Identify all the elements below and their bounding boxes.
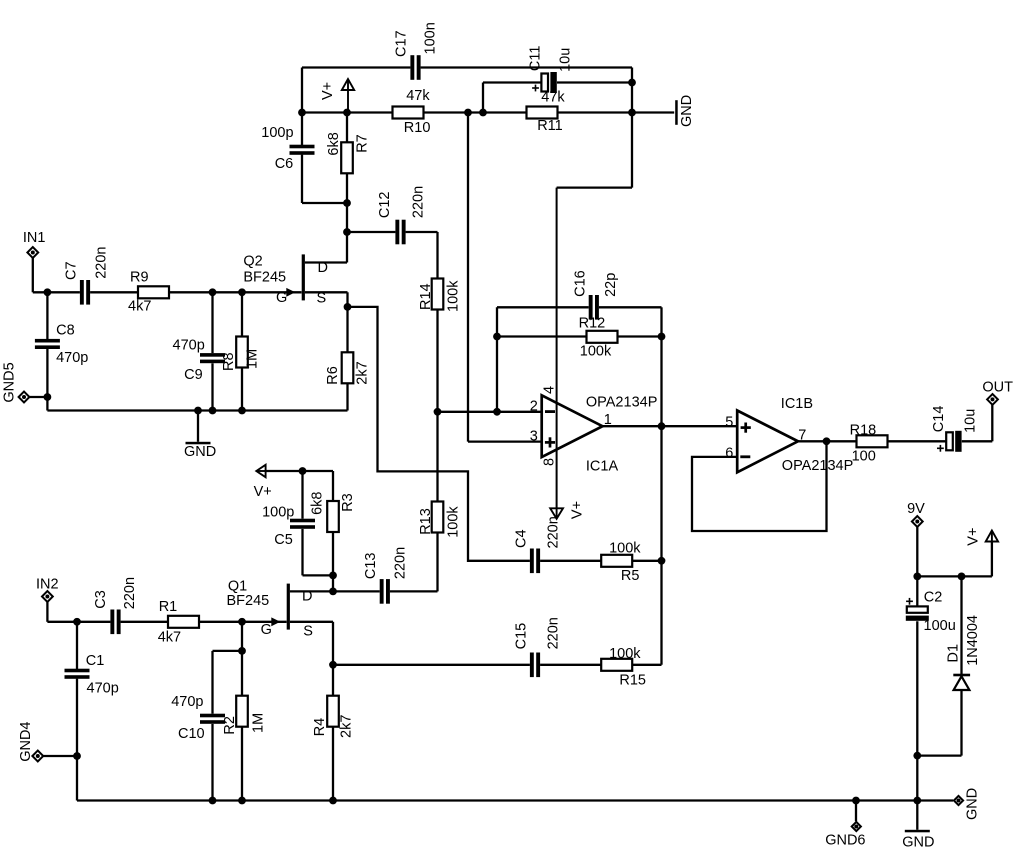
ground symbol GND bottom (902, 801, 934, 851)
svg-text:C4: C4 (513, 529, 529, 548)
svg-text:6k8: 6k8 (310, 492, 326, 515)
svg-text:100p: 100p (262, 504, 294, 520)
svg-text:2k7: 2k7 (339, 715, 355, 738)
wire C12 net (347, 232, 438, 279)
wire D1 to C2 bottom (917, 754, 961, 756)
svg-text:BF245: BF245 (227, 593, 270, 609)
wire IC1B feedback loop (692, 441, 827, 531)
svg-text:GND: GND (965, 788, 981, 820)
svg-text:IN2: IN2 (36, 576, 59, 592)
ground symbol GND channel1 (184, 411, 216, 461)
svg-text:100u: 100u (924, 618, 956, 634)
wire R14 to R13 vertical (436, 310, 438, 502)
svg-text:47k: 47k (406, 88, 430, 104)
svg-text:GND: GND (902, 835, 934, 851)
capacitor C16 (573, 270, 619, 319)
svg-text:GND: GND (679, 95, 695, 127)
resistor R3 (310, 492, 357, 532)
pin GND4 (18, 722, 43, 762)
svg-text:R2: R2 (222, 716, 238, 735)
svg-text:6: 6 (725, 446, 733, 462)
svg-text:R12: R12 (579, 316, 606, 332)
junction dot GND5/C8 (44, 393, 52, 401)
svg-text:C11: C11 (528, 46, 544, 72)
capacitor C5 (262, 504, 315, 548)
wire R5 to feedback node (632, 560, 661, 562)
svg-text:V+: V+ (320, 82, 336, 100)
wire C14 to OUT (962, 405, 993, 442)
wire IN1 to C7 (33, 258, 80, 292)
wire C4 to R5 (540, 560, 601, 562)
resistor R10 (393, 88, 431, 136)
svg-text:10u: 10u (557, 48, 573, 72)
svg-text:100: 100 (852, 449, 876, 465)
svg-text:100p: 100p (261, 125, 293, 141)
svg-text:GND4: GND4 (18, 722, 34, 762)
wire R13 bottom to C13 (390, 533, 438, 592)
svg-text:OUT: OUT (982, 380, 1013, 396)
svg-text:10u: 10u (962, 409, 978, 433)
wire C15 net (333, 664, 601, 666)
supply symbol V+ power (965, 528, 998, 546)
svg-text:220n: 220n (546, 516, 562, 548)
junction dot Q1 source / C15 (329, 661, 337, 669)
svg-text:100n: 100n (422, 22, 438, 54)
svg-text:220n: 220n (93, 247, 109, 279)
pin GND6 (825, 801, 865, 849)
wire feedback node vertical (660, 337, 662, 665)
svg-text:2k7: 2k7 (354, 361, 370, 384)
svg-text:Q1: Q1 (228, 578, 247, 594)
capacitor C2 branch wire (916, 576, 918, 800)
svg-text:470p: 470p (87, 681, 119, 697)
junction dot Q2 source (344, 303, 352, 311)
wire R3 bottom (332, 532, 334, 591)
svg-text:D1: D1 (945, 644, 961, 663)
svg-text:R11: R11 (537, 118, 563, 134)
wire IC1B output (798, 440, 857, 442)
svg-text:100k: 100k (609, 540, 641, 556)
wire V+ rail branch to pin3 (468, 113, 541, 442)
wire R15 to feedback node (632, 664, 661, 666)
junction dot C12 tap (343, 228, 351, 236)
svg-text:GND: GND (184, 444, 216, 460)
junction dot IN2/C1 (73, 618, 81, 626)
svg-text:100k: 100k (609, 646, 641, 662)
wire V+ to R3/C5 (266, 471, 333, 501)
junction dot IN1/C8 (44, 288, 52, 296)
wire Q2 drain (305, 261, 347, 263)
svg-text:R14: R14 (418, 283, 434, 310)
svg-text:GND6: GND6 (825, 833, 865, 849)
diode D1 1N4004 (945, 576, 981, 755)
svg-text:V+: V+ (965, 528, 981, 546)
resistor R9 (128, 270, 169, 315)
svg-text:R5: R5 (621, 568, 640, 584)
wire C7 to R9 (90, 291, 138, 293)
svg-text:6k8: 6k8 (326, 132, 342, 155)
wire R12 feedback (497, 335, 662, 337)
resistor R12 (579, 316, 618, 360)
wire R9 to Q2 gate (169, 291, 302, 293)
svg-text:100k: 100k (446, 506, 462, 538)
wire IC1A output (603, 425, 738, 427)
transistor Q2 BF245 (243, 254, 328, 307)
svg-text:G: G (276, 290, 287, 306)
resistor R4 (312, 696, 355, 738)
pin 9V (907, 501, 925, 527)
supply symbol V+ top (320, 79, 354, 113)
wire R14 bottom to pin2 (438, 411, 542, 413)
junction dot IC1B output (823, 437, 831, 445)
svg-text:V+: V+ (254, 484, 272, 500)
junction dot R14 bottom (434, 408, 442, 416)
svg-text:R1: R1 (159, 599, 178, 615)
svg-text:GND5: GND5 (2, 362, 18, 402)
svg-text:4k7: 4k7 (158, 629, 181, 645)
junction dots channel1 rail (194, 407, 202, 415)
svg-text:BF245: BF245 (243, 270, 286, 286)
resistor R8 branch wire (241, 292, 243, 410)
resistor R13 (418, 502, 462, 538)
wire gate node to C10/R2 (213, 622, 243, 801)
svg-text:G: G (261, 622, 272, 638)
capacitor C1 branch wire (76, 622, 78, 801)
junction dot R12 right (658, 333, 666, 341)
svg-text:C1: C1 (86, 653, 105, 669)
junction dots Q1 gate node (238, 618, 246, 626)
svg-text:Q2: Q2 (243, 254, 262, 270)
svg-text:C6: C6 (275, 156, 294, 172)
svg-text:1M: 1M (251, 713, 267, 733)
svg-text:R7: R7 (354, 134, 370, 153)
wire V+ rail y112.5 (302, 111, 674, 113)
svg-text:R6: R6 (325, 366, 341, 385)
svg-text:C13: C13 (363, 552, 379, 579)
svg-text:C12: C12 (377, 191, 393, 218)
svg-text:IC1A: IC1A (586, 459, 619, 475)
junction dots Q2 gate node (209, 288, 217, 296)
svg-text:C7: C7 (64, 261, 80, 280)
junction dot R5 node (658, 557, 666, 565)
capacitor C13 (363, 547, 408, 604)
svg-text:C3: C3 (93, 590, 109, 609)
svg-text:C17: C17 (394, 30, 410, 57)
wire C3 to R1 (121, 621, 168, 623)
wire C11 branch (483, 83, 632, 113)
junction dot C5 top (299, 467, 307, 475)
pin GND right (954, 788, 981, 820)
svg-text:R10: R10 (404, 120, 431, 136)
svg-text:470p: 470p (56, 350, 88, 366)
wire right vertical x632 down to IC1A power (557, 68, 632, 519)
capacitor C11 polarized (528, 46, 574, 93)
resistor R1 (158, 599, 199, 646)
ground symbol GND top-right (675, 95, 695, 127)
junction dot R12 left (493, 333, 501, 341)
capacitor C1 (65, 653, 119, 697)
svg-text:V+: V+ (569, 501, 585, 519)
resistor R14 (418, 279, 462, 313)
pin IN2 (36, 576, 59, 602)
supply symbol V+ channel2 (254, 465, 272, 500)
wire GND4 (43, 755, 77, 757)
svg-text:IC1B: IC1B (781, 396, 813, 412)
junction dots top rail (298, 109, 306, 117)
svg-text:R18: R18 (850, 423, 877, 439)
wire C17 net top (302, 66, 632, 68)
junction dot R3/C5 (329, 572, 337, 580)
svg-text:S: S (303, 624, 313, 640)
wire left branch x302 with C6 tap (302, 68, 347, 204)
pin GND5 (2, 362, 30, 402)
capacitor C10 (171, 694, 225, 742)
svg-text:C5: C5 (274, 532, 293, 548)
pin IN1 (23, 230, 46, 258)
svg-text:100k: 100k (580, 344, 612, 360)
resistor R2 (222, 696, 267, 735)
wire 9V to V+ arrow (917, 527, 992, 577)
wire Q1 source (290, 622, 333, 665)
capacitor C12 (377, 186, 426, 244)
svg-text:R9: R9 (130, 270, 149, 286)
capacitor C2 polarized (906, 590, 956, 634)
svg-text:R3: R3 (340, 493, 356, 512)
svg-text:470p: 470p (173, 338, 205, 354)
capacitor C6 (261, 125, 314, 172)
svg-text:4k7: 4k7 (128, 299, 151, 315)
svg-text:C9: C9 (184, 367, 203, 383)
svg-text:C16: C16 (573, 270, 589, 297)
svg-text:2: 2 (530, 398, 538, 414)
svg-text:220n: 220n (546, 617, 562, 649)
wire ground rail channel1 y410.5 (47, 409, 347, 411)
wire IN2 to C3 (47, 602, 110, 622)
svg-text:9V: 9V (907, 501, 925, 517)
svg-text:R15: R15 (619, 673, 646, 689)
svg-text:OPA2134P: OPA2134P (782, 458, 853, 474)
op-amp IC1B (725, 396, 853, 474)
capacitor C9 branch wire (211, 292, 213, 410)
wire Q2 source to C4 path (348, 307, 530, 561)
svg-text:R4: R4 (312, 718, 328, 737)
resistor R8 (221, 337, 261, 372)
wire Q2 source to R6 (305, 292, 348, 410)
svg-text:5: 5 (725, 414, 733, 430)
svg-text:100k: 100k (446, 280, 462, 312)
svg-text:OPA2134P: OPA2134P (586, 395, 657, 411)
wire R18 to C14 (888, 440, 947, 442)
capacitor C8 branch wire (46, 292, 48, 410)
wire source to R4 (332, 665, 334, 801)
transistor Q1 BF245 (227, 578, 313, 639)
resistor R6 (325, 352, 370, 384)
junction dots bottom rail (209, 797, 217, 805)
pin OUT (982, 380, 1013, 405)
capacitor C17 (394, 22, 439, 80)
svg-text:4: 4 (542, 386, 558, 394)
junction dot R7 bottom / C6 (343, 199, 351, 207)
junction dot C2/D1 bottom (913, 752, 921, 760)
capacitor C8 (35, 323, 88, 366)
capacitor C14 polarized (931, 406, 978, 452)
junction dot GND4/C1 (73, 752, 81, 760)
resistor R11 (527, 90, 566, 135)
junction dot Q1 drain (329, 588, 337, 596)
capacitor C9 (173, 338, 226, 384)
svg-text:220n: 220n (122, 577, 138, 609)
svg-text:1N4004: 1N4004 (965, 615, 981, 666)
junction dot pin2/C16 (493, 408, 501, 416)
svg-text:C10: C10 (178, 726, 205, 742)
supply symbol V+ IC1A pin8 (550, 501, 585, 519)
junction dot IC1A output (658, 422, 666, 430)
resistor R18 (850, 423, 888, 465)
svg-text:C14: C14 (931, 406, 947, 433)
svg-text:R13: R13 (418, 508, 434, 535)
svg-text:R8: R8 (221, 352, 237, 371)
svg-text:C2: C2 (924, 590, 943, 606)
svg-text:C15: C15 (513, 623, 529, 650)
resistor R15 (601, 646, 646, 689)
svg-text:470p: 470p (171, 694, 203, 710)
resistor R7 (326, 113, 370, 263)
capacitor C4 (513, 516, 561, 573)
svg-text:220n: 220n (392, 547, 408, 579)
op-amp IC1A (530, 386, 658, 475)
wire GND5 (29, 396, 47, 398)
wire Q1 drain to C13 (290, 590, 380, 592)
wire ground rail bottom (77, 799, 953, 801)
capacitor C5 branch wire (303, 471, 334, 575)
capacitor C3 (93, 577, 138, 634)
capacitor C15 (513, 617, 561, 677)
svg-text:8: 8 (542, 458, 558, 466)
wire R1 to Q1 gate (199, 621, 287, 623)
wire C16 feedback top (497, 307, 662, 412)
svg-text:22p: 22p (603, 273, 619, 297)
svg-text:3: 3 (530, 428, 538, 444)
svg-text:1M: 1M (245, 349, 261, 369)
svg-text:IN1: IN1 (23, 230, 46, 246)
resistor R5 (601, 540, 641, 584)
svg-text:C8: C8 (56, 323, 75, 339)
svg-text:220n: 220n (410, 186, 426, 218)
capacitor C7 (64, 247, 110, 305)
junction dots 9V node (913, 573, 921, 581)
